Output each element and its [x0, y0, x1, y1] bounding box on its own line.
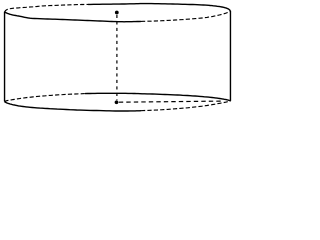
radius line (dashed, bottom dot to right rim) [119, 101, 223, 102]
right side wall line [229, 11, 231, 101]
cylinder diagram [0, 0, 234, 118]
top center dot [115, 11, 119, 15]
bottom ellipse upper-right arc (solid) [85, 93, 231, 101]
top ellipse upper-right arc (solid) [88, 4, 231, 11]
bottom ellipse upper-left arc (dashed, hidden back rim) [4, 94, 85, 102]
top ellipse lower-left arc (solid front rim) [5, 12, 142, 22]
top ellipse lower-right arc (dashed) [141, 11, 231, 22]
bottom ellipse lower-right arc (dashed) [141, 101, 231, 111]
axis line (dashed, top center dot to bottom center dot) [116, 15, 118, 100]
bottom ellipse lower-left arc (solid front rim) [4, 102, 141, 112]
left side wall line [4, 12, 6, 102]
bottom center dot [115, 100, 119, 104]
top ellipse upper-left arc (dashed, hidden) [5, 4, 89, 11]
